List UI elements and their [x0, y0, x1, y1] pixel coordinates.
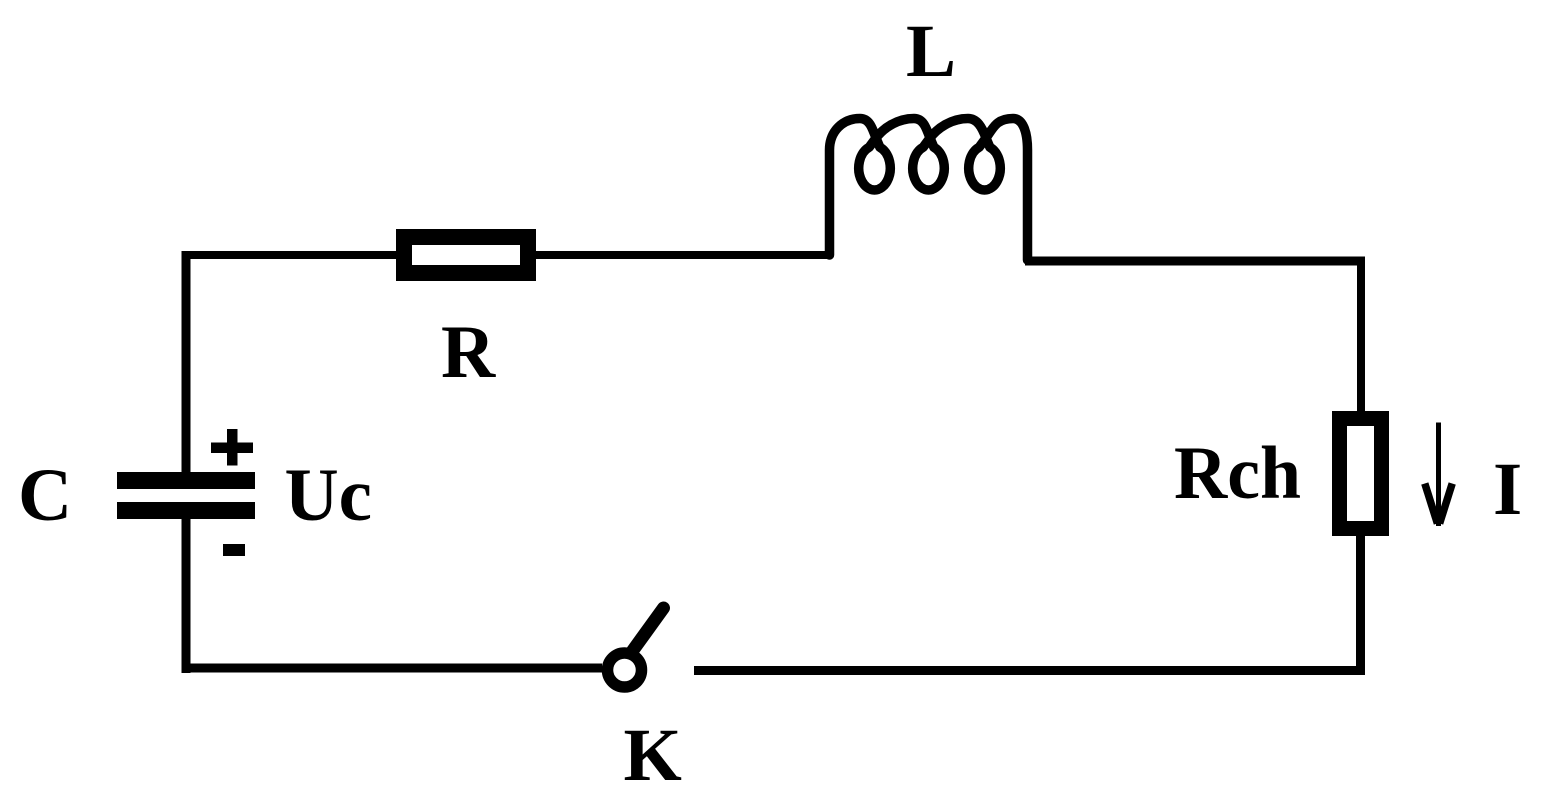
svg-text:C: C [18, 454, 72, 537]
svg-text:L: L [906, 10, 956, 93]
svg-text:K: K [624, 714, 682, 797]
svg-text:R: R [441, 311, 496, 394]
svg-text:I: I [1493, 448, 1522, 531]
svg-text:Rch: Rch [1174, 432, 1301, 515]
svg-text:Uc: Uc [285, 454, 372, 537]
